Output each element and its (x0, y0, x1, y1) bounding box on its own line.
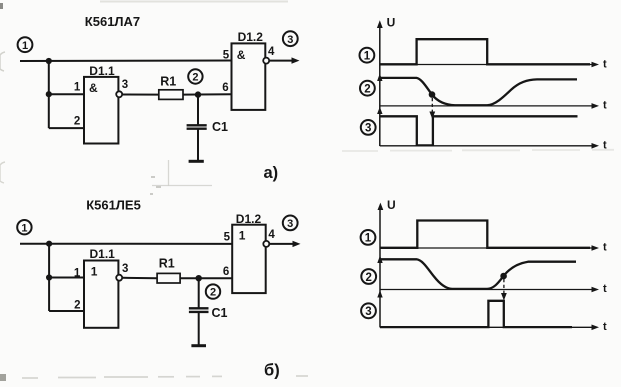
wire: input line circuit b (20, 243, 232, 245)
scan streak top (100, 1, 288, 3)
svg-text:D1.1: D1.1 (89, 64, 115, 78)
trace 2 axis (a) (380, 100, 607, 112)
scan faint vertical line near ground a (168, 160, 170, 186)
svg-text:2: 2 (210, 287, 216, 299)
threshold dot on trace 2 (b) (500, 273, 507, 280)
dashed arrow to trace 3 (b) (501, 279, 507, 301)
scan smudge row bottom (22, 376, 308, 378)
svg-text:D1.1: D1.1 (90, 247, 116, 261)
svg-text:C1: C1 (212, 306, 228, 320)
svg-text:К561ЛЕ5: К561ЛЕ5 (86, 198, 141, 213)
inversion bubble D1.1 (a) (116, 91, 122, 97)
svg-text:U: U (387, 198, 396, 212)
svg-text:К561ЛА7: К561ЛА7 (85, 14, 140, 29)
ground (a) (189, 160, 204, 163)
scan streak right mid (342, 150, 614, 151)
inversion bubble D1.2 (b) (263, 241, 269, 247)
svg-text:C1: C1 (212, 120, 228, 134)
axis arrowhead trace2 (a) (377, 74, 382, 82)
svg-text:D1.2: D1.2 (238, 30, 264, 44)
svg-text:t: t (603, 321, 607, 333)
svg-text:1: 1 (74, 82, 81, 94)
svg-text:5: 5 (223, 49, 230, 61)
junction: pin1 branch (a) (46, 91, 52, 97)
svg-text:4: 4 (268, 229, 275, 241)
svg-text:3: 3 (365, 306, 371, 318)
capacitor C1 (b) (189, 306, 228, 320)
svg-text:&: & (89, 81, 98, 95)
wire: to pin 2 of D1.1 (b) (49, 310, 84, 312)
trace 3 axis (b) (380, 321, 607, 333)
wire: node 2 down to C1 (b) (198, 278, 200, 308)
scan speck bottom-left (0, 374, 6, 381)
trace 2 waveform (a) (380, 78, 577, 105)
svg-text:1: 1 (365, 233, 372, 245)
svg-text:&: & (237, 48, 246, 62)
wire: vertical input branch (a) (48, 61, 50, 128)
wire: D1.1 output to R1 (b) (122, 277, 157, 279)
svg-text:1: 1 (91, 265, 98, 279)
wire: C1 to ground (a) (197, 129, 199, 161)
svg-text:D1.2: D1.2 (236, 212, 262, 226)
trace 1 axis (b) (380, 242, 607, 254)
svg-text:t: t (603, 242, 607, 254)
resistor R1 (b) (157, 256, 180, 283)
svg-text:t: t (603, 59, 607, 71)
svg-text:2: 2 (192, 72, 198, 84)
gate D1.1 (b) (74, 247, 129, 328)
svg-text:U: U (387, 15, 396, 29)
svg-text:6: 6 (222, 82, 228, 94)
svg-text:2: 2 (365, 272, 371, 284)
svg-text:R1: R1 (159, 256, 175, 270)
output arrow (a) (269, 57, 299, 63)
scan faint horizontal line below circuit a (152, 185, 212, 187)
wire: D1.1 output to R1 (a) (122, 94, 159, 96)
gate D1.2 (a) (223, 30, 275, 110)
node 1 (circuit a) (18, 37, 33, 52)
svg-text:R1: R1 (160, 74, 176, 88)
node 3 label (a) (283, 31, 298, 46)
node 2 label (a) (188, 69, 202, 83)
svg-text:5: 5 (224, 232, 231, 244)
axis arrowhead trace3 (a) (377, 107, 382, 114)
svg-text:1: 1 (22, 40, 28, 52)
trace 2 axis (b) (380, 283, 607, 295)
scan speck left edge (0, 52, 5, 71)
svg-text:2: 2 (74, 300, 80, 312)
svg-text:3: 3 (365, 123, 371, 135)
threshold dot on trace 2 (a) (429, 91, 436, 98)
wire: to pin 1 of D1.1 (b) (49, 277, 84, 279)
node label 1 (b) (361, 230, 376, 245)
svg-text:1: 1 (364, 51, 371, 63)
junction: node 2 (b) (196, 275, 202, 281)
svg-text:2: 2 (364, 84, 370, 96)
trace 3 waveform (b) (380, 301, 572, 327)
wire: R1 to pin 6 (b) (180, 277, 232, 279)
wire: to pin 2 of D1.1 (a) (49, 127, 84, 129)
resistor R1 (a) (159, 74, 183, 99)
junction: node 2 (a) (195, 91, 201, 97)
U axis (a) (377, 15, 395, 146)
node label 2 (a) (360, 81, 375, 96)
wire: input line circuit a (20, 60, 232, 63)
svg-text:4: 4 (268, 46, 275, 58)
scan speck top-left (0, 3, 3, 9)
node 2 label (b) (206, 284, 220, 298)
junction: input split (b) (46, 241, 52, 247)
inversion bubble D1.2 (a) (263, 58, 269, 64)
wire: C1 to ground (b) (198, 312, 200, 346)
svg-text:а): а) (264, 164, 279, 182)
node 1 (circuit b) (17, 220, 31, 234)
inversion bubble D1.1 (b) (116, 275, 122, 281)
trace 1 waveform (a) (380, 39, 590, 64)
trace 1 axis (a) (380, 59, 607, 71)
ground (b) (191, 344, 206, 347)
svg-text:3: 3 (122, 79, 128, 91)
scan specks below circuit a (150, 176, 161, 195)
junction: pin1 branch (b) (46, 274, 52, 280)
svg-text:t: t (603, 283, 607, 295)
axis arrowhead trace3 (b) (377, 290, 382, 297)
wire: to pin 1 of D1.1 (a) (49, 93, 84, 95)
wire: vertical input branch (b) (48, 244, 50, 311)
trace 2 waveform (b) (380, 259, 576, 289)
svg-text:б): б) (264, 362, 280, 380)
node label 1 (a) (360, 48, 375, 63)
svg-text:1: 1 (74, 268, 81, 280)
svg-text:t: t (603, 139, 607, 151)
capacitor C1 (a) (187, 120, 228, 134)
node label 3 (a) (361, 120, 376, 135)
node label 2 (b) (361, 269, 376, 284)
scan arc left edge lower (0, 162, 5, 183)
junction: input split (a) (46, 58, 52, 64)
wire: node 2 down to C1 (a) (197, 95, 199, 125)
svg-text:1: 1 (21, 222, 27, 234)
trace 1 waveform (b) (380, 221, 590, 248)
node label 3 (b) (361, 303, 376, 318)
trace 3 waveform (a) (380, 116, 578, 145)
node 3 label (b) (283, 216, 298, 231)
dashed arrow to trace 3 (a) (429, 98, 435, 119)
svg-text:2: 2 (74, 116, 80, 128)
svg-text:1: 1 (239, 229, 246, 243)
gate D1.2 (b) (224, 212, 276, 293)
svg-text:6: 6 (223, 266, 229, 278)
svg-text:3: 3 (287, 34, 293, 46)
svg-text:3: 3 (122, 263, 128, 275)
svg-text:t: t (603, 100, 607, 112)
wire: R1 to pin 6 (a) (183, 93, 232, 95)
U axis (b) (378, 198, 396, 328)
output arrow (b) (269, 241, 300, 247)
svg-text:3: 3 (287, 218, 293, 230)
gate D1.1 (a) (74, 64, 128, 144)
trace 3 axis (a) (380, 139, 607, 151)
axis arrowhead trace2 (b) (377, 256, 382, 264)
